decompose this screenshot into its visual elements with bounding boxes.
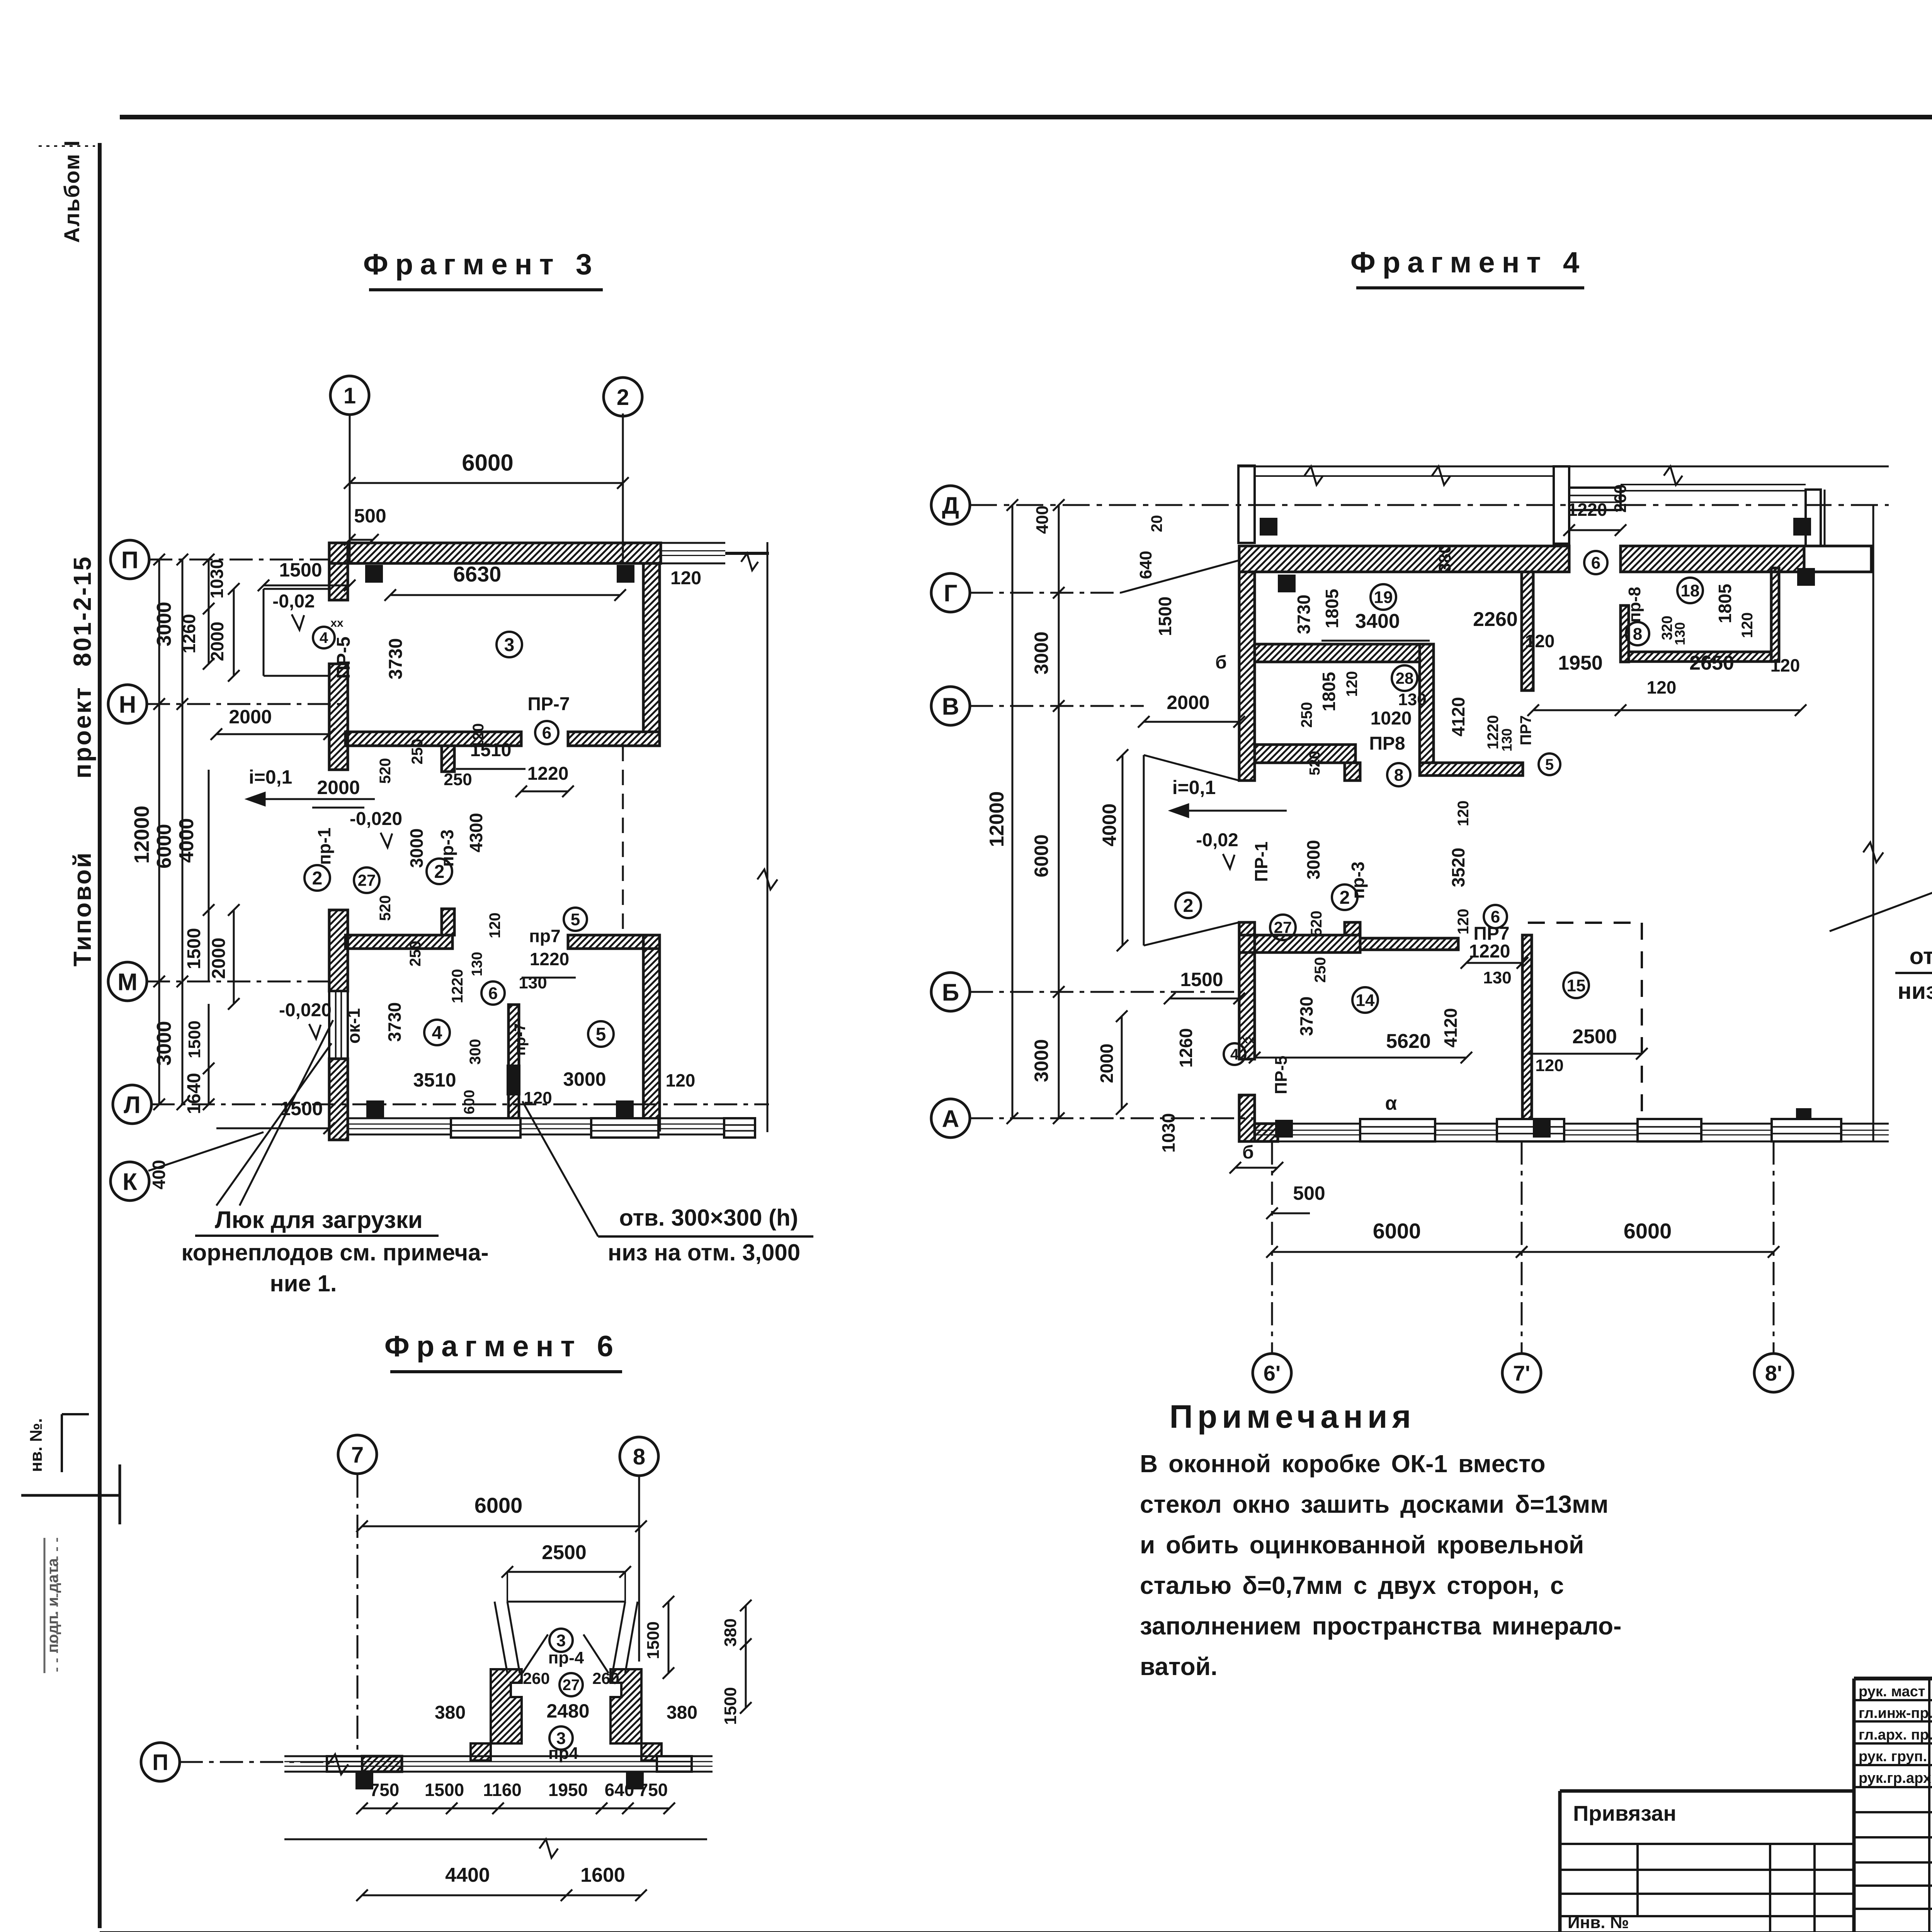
svg-text:2000: 2000 <box>1167 692 1209 713</box>
svg-text:3400: 3400 <box>1355 610 1400 633</box>
svg-text:380: 380 <box>1435 544 1454 572</box>
svg-text:120: 120 <box>486 913 503 939</box>
svg-text:нв. №.: нв. №. <box>27 1418 46 1472</box>
svg-text:1950: 1950 <box>1558 652 1603 674</box>
svg-text:1805: 1805 <box>1322 589 1342 628</box>
svg-text:3000: 3000 <box>563 1068 606 1090</box>
svg-text:4000: 4000 <box>175 818 198 863</box>
svg-text:Д: Д <box>942 492 959 519</box>
svg-text:6: 6 <box>1591 553 1600 572</box>
svg-text:120: 120 <box>1455 801 1472 827</box>
svg-text:заполнением пространства мин: заполнением пространства минерало- <box>1140 1612 1621 1640</box>
svg-text:2000: 2000 <box>229 706 272 728</box>
svg-text:1500: 1500 <box>185 1020 204 1058</box>
svg-text:130: 130 <box>1499 728 1515 752</box>
svg-text:12000: 12000 <box>986 791 1008 847</box>
svg-text:Фрагмент 4: Фрагмент 4 <box>1350 246 1586 279</box>
svg-text:проект: проект <box>68 686 96 779</box>
svg-text:2: 2 <box>1183 896 1194 916</box>
svg-text:250: 250 <box>409 739 426 765</box>
svg-text:801-2-15: 801-2-15 <box>68 555 96 667</box>
svg-text:500: 500 <box>354 505 386 527</box>
svg-text:1260: 1260 <box>179 614 199 653</box>
svg-text:-0,020: -0,020 <box>279 1000 332 1020</box>
svg-text:500: 500 <box>1293 1182 1325 1204</box>
svg-text:300: 300 <box>467 1039 484 1065</box>
svg-text:ПР7: ПР7 <box>1517 715 1534 745</box>
svg-text:5: 5 <box>596 1024 606 1045</box>
svg-text:4400: 4400 <box>445 1864 490 1886</box>
svg-text:6000: 6000 <box>153 824 175 869</box>
svg-text:120: 120 <box>1535 1056 1563 1075</box>
svg-text:П: П <box>121 547 139 573</box>
svg-text:3730: 3730 <box>1294 595 1314 634</box>
svg-text:Л: Л <box>124 1092 141 1118</box>
svg-text:5: 5 <box>1545 756 1554 773</box>
svg-text:120: 120 <box>1647 677 1677 697</box>
svg-text:27: 27 <box>358 871 376 889</box>
svg-text:3510: 3510 <box>413 1069 456 1091</box>
svg-text:120: 120 <box>1344 671 1361 697</box>
svg-text:8: 8 <box>633 1444 645 1469</box>
svg-text:4: 4 <box>1230 1046 1239 1063</box>
svg-text:8': 8' <box>1765 1361 1782 1385</box>
svg-text:6000: 6000 <box>1031 834 1052 877</box>
svg-text:520: 520 <box>377 758 394 784</box>
svg-text:260: 260 <box>1611 484 1630 512</box>
svg-text:К: К <box>122 1168 137 1195</box>
svg-text:Привязан: Привязан <box>1573 1801 1676 1825</box>
svg-text:400: 400 <box>1033 505 1052 534</box>
svg-text:640: 640 <box>1136 551 1155 579</box>
svg-text:1640: 1640 <box>184 1073 204 1114</box>
svg-text:27: 27 <box>1274 918 1292 937</box>
svg-text:1805: 1805 <box>1319 672 1339 711</box>
svg-text:2260: 2260 <box>1473 608 1518 631</box>
svg-text:380: 380 <box>435 1702 466 1723</box>
svg-text:120: 120 <box>666 1070 696 1090</box>
svg-text:ок-1: ок-1 <box>344 1008 364 1044</box>
svg-text:18: 18 <box>1681 581 1700 600</box>
svg-text:520: 520 <box>1308 911 1325 937</box>
svg-text:27: 27 <box>563 1677 580 1694</box>
svg-text:2000: 2000 <box>207 622 227 661</box>
svg-text:6000: 6000 <box>474 1493 523 1517</box>
svg-text:600: 600 <box>461 1090 478 1114</box>
svg-text:б: б <box>1242 1142 1254 1163</box>
svg-text:ПР-5: ПР-5 <box>1272 1056 1291 1094</box>
svg-text:пр-7: пр-7 <box>512 1023 529 1056</box>
svg-text:5: 5 <box>571 910 580 929</box>
svg-text:Альбом I: Альбом I <box>60 139 84 243</box>
svg-text:В оконной коробке ОК-1 вме: В оконной коробке ОК-1 вместо <box>1140 1450 1546 1478</box>
svg-text:отв. 550×550(h): отв. 550×550(h) <box>1910 943 1932 969</box>
svg-text:250: 250 <box>1298 702 1315 728</box>
svg-text:4: 4 <box>320 629 328 646</box>
svg-text:1500: 1500 <box>1180 969 1223 990</box>
svg-text:сталью δ=0,7мм с двух стор: сталью δ=0,7мм с двух сторон, с <box>1140 1571 1564 1599</box>
svg-text:130: 130 <box>1398 690 1426 709</box>
svg-text:3730: 3730 <box>1296 997 1316 1036</box>
svg-text:120: 120 <box>470 723 487 749</box>
svg-text:14: 14 <box>1356 991 1375 1010</box>
svg-text:1500: 1500 <box>184 928 204 969</box>
svg-text:20: 20 <box>1148 515 1165 532</box>
svg-text:3520: 3520 <box>1448 848 1468 887</box>
svg-text:-0,02: -0,02 <box>1196 830 1238 850</box>
svg-text:2: 2 <box>312 868 323 889</box>
svg-text:2650: 2650 <box>1689 652 1734 674</box>
svg-text:ПР-1: ПР-1 <box>1251 842 1271 882</box>
svg-text:640: 640 <box>605 1780 634 1800</box>
svg-text:130: 130 <box>519 973 547 992</box>
svg-text:Г: Г <box>944 580 957 607</box>
svg-text:Инв. №: Инв. № <box>1568 1913 1629 1932</box>
svg-text:1950: 1950 <box>548 1780 588 1800</box>
svg-text:12000: 12000 <box>130 806 153 864</box>
svg-text:рук. груп.: рук. груп. <box>1859 1748 1927 1765</box>
svg-text:3000: 3000 <box>1031 631 1052 674</box>
svg-text:Н: Н <box>119 691 136 718</box>
svg-text:Б: Б <box>942 979 959 1006</box>
svg-text:4300: 4300 <box>466 813 486 852</box>
svg-text:пр4: пр4 <box>548 1744 578 1763</box>
svg-text:рук. маст: рук. маст <box>1859 1684 1925 1700</box>
svg-text:6: 6 <box>488 984 498 1003</box>
svg-text:1500: 1500 <box>1155 597 1175 636</box>
svg-text:отв. 300×300 (h): отв. 300×300 (h) <box>619 1205 798 1231</box>
svg-text:1220: 1220 <box>1469 941 1510 962</box>
svg-text:120: 120 <box>1770 655 1800 675</box>
svg-text:ние 1.: ние 1. <box>270 1270 337 1296</box>
svg-text:1500: 1500 <box>721 1687 740 1725</box>
svg-text:Люк для загрузки: Люк для загрузки <box>215 1207 423 1233</box>
svg-text:750: 750 <box>638 1780 668 1800</box>
svg-text:α: α <box>1385 1092 1397 1114</box>
svg-text:1260: 1260 <box>1176 1028 1196 1068</box>
svg-text:Примечания: Примечания <box>1170 1398 1416 1435</box>
svg-text:120: 120 <box>1739 612 1756 638</box>
svg-text:гл.арх. пр.: гл.арх. пр. <box>1859 1727 1932 1743</box>
svg-text:i=0,1: i=0,1 <box>1172 777 1216 798</box>
svg-text:2000: 2000 <box>317 777 360 798</box>
svg-text:380: 380 <box>667 1702 697 1723</box>
svg-text:4: 4 <box>432 1023 442 1043</box>
svg-text:120: 120 <box>1455 909 1472 935</box>
svg-text:1805: 1805 <box>1715 584 1735 623</box>
svg-text:1500: 1500 <box>425 1780 464 1800</box>
svg-text:8: 8 <box>1394 765 1403 784</box>
svg-text:250: 250 <box>407 941 424 967</box>
svg-text:6: 6 <box>542 723 551 742</box>
svg-text:3000: 3000 <box>153 602 175 646</box>
svg-text:xx: xx <box>1242 1033 1255 1046</box>
svg-text:М: М <box>117 969 138 995</box>
svg-text:3000: 3000 <box>406 828 427 868</box>
svg-text:Фрагмент 6: Фрагмент 6 <box>384 1330 620 1363</box>
svg-text:1020: 1020 <box>1371 708 1412 729</box>
svg-text:А: А <box>942 1105 959 1132</box>
svg-text:7': 7' <box>1513 1361 1530 1385</box>
svg-text:120: 120 <box>1525 631 1555 651</box>
svg-text:520: 520 <box>1307 751 1323 775</box>
svg-text:Фрагмент 3: Фрагмент 3 <box>363 248 599 281</box>
svg-text:2: 2 <box>617 385 629 410</box>
svg-text:пр-1: пр-1 <box>314 828 334 865</box>
svg-text:i=0,1: i=0,1 <box>249 766 293 788</box>
svg-text:1220: 1220 <box>530 949 569 969</box>
svg-text:1600: 1600 <box>580 1864 625 1886</box>
svg-text:1220: 1220 <box>527 764 569 784</box>
svg-text:120: 120 <box>524 1088 552 1107</box>
svg-text:3: 3 <box>556 1631 566 1650</box>
svg-text:1030: 1030 <box>1158 1113 1179 1153</box>
svg-text:-0,02: -0,02 <box>272 591 315 612</box>
svg-text:6630: 6630 <box>453 562 502 586</box>
svg-text:3730: 3730 <box>386 638 406 680</box>
svg-text:1: 1 <box>344 383 356 408</box>
svg-text:400: 400 <box>149 1160 169 1190</box>
svg-text:2480: 2480 <box>546 1700 589 1722</box>
svg-text:2000: 2000 <box>209 938 229 979</box>
svg-text:8: 8 <box>1633 624 1642 643</box>
svg-text:2000: 2000 <box>1097 1044 1117 1083</box>
svg-text:250: 250 <box>1312 957 1329 983</box>
svg-text:15: 15 <box>1567 976 1586 995</box>
svg-text:пр-4: пр-4 <box>548 1648 584 1667</box>
svg-text:низ на отм.2,625.: низ на отм.2,625. <box>1898 978 1932 1004</box>
svg-text:250: 250 <box>444 770 472 789</box>
svg-text:подп. и дата: подп. и дата <box>44 1558 61 1653</box>
svg-text:260: 260 <box>523 1669 550 1687</box>
svg-text:П: П <box>152 1750 168 1775</box>
svg-text:гл.инж-пр.: гл.инж-пр. <box>1859 1705 1932 1721</box>
svg-text:3000: 3000 <box>1031 1039 1052 1082</box>
svg-text:4000: 4000 <box>1099 803 1120 846</box>
svg-text:пр7: пр7 <box>529 926 560 946</box>
svg-text:6000: 6000 <box>1373 1219 1421 1243</box>
svg-text:520: 520 <box>377 895 394 921</box>
svg-text:3: 3 <box>504 635 515 655</box>
svg-text:260: 260 <box>592 1669 619 1687</box>
svg-text:28: 28 <box>1396 669 1414 687</box>
svg-text:3000: 3000 <box>1303 840 1323 879</box>
svg-text:4120: 4120 <box>1440 1008 1461 1048</box>
svg-text:4120: 4120 <box>1448 697 1468 736</box>
svg-text:3730: 3730 <box>384 1002 405 1042</box>
svg-text:120: 120 <box>670 568 701 588</box>
svg-text:6000: 6000 <box>1624 1219 1672 1243</box>
svg-text:5620: 5620 <box>1386 1030 1431 1053</box>
svg-text:рук.гр.арх: рук.гр.арх <box>1859 1770 1931 1786</box>
svg-text:корнеплодов см. примеча-: корнеплодов см. примеча- <box>181 1240 488 1265</box>
svg-text:низ на отм. 3,000: низ на отм. 3,000 <box>608 1240 800 1265</box>
svg-text:xx: xx <box>330 617 344 629</box>
svg-text:б: б <box>1215 652 1227 673</box>
svg-text:7: 7 <box>351 1442 364 1468</box>
svg-text:ПР8: ПР8 <box>1369 733 1405 754</box>
svg-text:и обить оцинкованной кровел: и обить оцинкованной кровельной <box>1140 1531 1584 1559</box>
svg-text:130: 130 <box>1672 622 1688 645</box>
svg-text:6': 6' <box>1264 1361 1281 1385</box>
svg-text:2500: 2500 <box>542 1541 587 1564</box>
svg-text:1160: 1160 <box>483 1780 522 1800</box>
svg-text:пр-3: пр-3 <box>1348 862 1368 899</box>
svg-text:-0,020: -0,020 <box>350 809 402 829</box>
svg-text:ПР-5: ПР-5 <box>333 636 354 679</box>
svg-text:19: 19 <box>1374 588 1393 607</box>
svg-text:1500: 1500 <box>644 1621 663 1659</box>
svg-text:2500: 2500 <box>1572 1026 1617 1048</box>
svg-text:пр-8: пр-8 <box>1625 587 1644 623</box>
svg-text:380: 380 <box>721 1618 740 1646</box>
svg-text:6000: 6000 <box>462 450 513 476</box>
svg-text:3000: 3000 <box>153 1021 175 1066</box>
svg-text:ватой.: ватой. <box>1140 1653 1218 1680</box>
svg-text:1500: 1500 <box>279 559 322 581</box>
svg-text:130: 130 <box>1483 968 1511 987</box>
svg-text:стекол окно зашить досками: стекол окно зашить досками δ=13мм <box>1140 1490 1609 1518</box>
svg-text:1030: 1030 <box>207 559 227 599</box>
svg-text:Типовой: Типовой <box>68 851 96 967</box>
svg-text:1220: 1220 <box>1568 500 1607 520</box>
svg-text:750: 750 <box>370 1780 400 1800</box>
svg-text:пр-3: пр-3 <box>437 830 457 867</box>
svg-text:ПР-7: ПР-7 <box>527 694 570 714</box>
svg-text:130: 130 <box>469 952 485 976</box>
svg-text:1220: 1220 <box>449 969 466 1003</box>
svg-text:В: В <box>942 693 959 720</box>
